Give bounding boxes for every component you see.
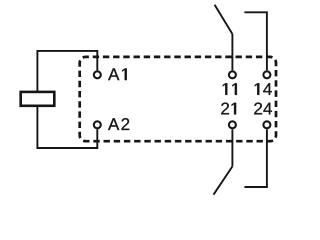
coil bbox=[21, 92, 55, 106]
label A1 bbox=[108, 68, 119, 80]
wire: pin 21 stub bbox=[231, 129, 233, 166]
label 11 bbox=[223, 83, 228, 95]
wire: coil loop from A1 around to A2 bbox=[37, 51, 97, 148]
pin 11 bbox=[229, 71, 236, 78]
wire: pin 24 lead bbox=[244, 129, 267, 187]
pin 24 bbox=[263, 121, 270, 128]
pin 21 bbox=[229, 121, 236, 128]
wire: contact armature (11 common, upper pole) bbox=[215, 5, 233, 34]
wire: pin 14 lead bbox=[244, 12, 267, 70]
label 24 bbox=[254, 103, 262, 115]
label A2 bbox=[108, 118, 119, 130]
relay case outline (dashed) bbox=[80, 57, 276, 141]
wire: contact armature (21 common, lower pole) bbox=[214, 166, 233, 194]
label 14 bbox=[255, 83, 260, 95]
pin A2 bbox=[94, 121, 101, 128]
pin 14 bbox=[263, 71, 270, 78]
pin A1 bbox=[94, 71, 101, 78]
label 21 bbox=[221, 103, 229, 115]
wire: pin 11 stub bbox=[231, 34, 233, 70]
